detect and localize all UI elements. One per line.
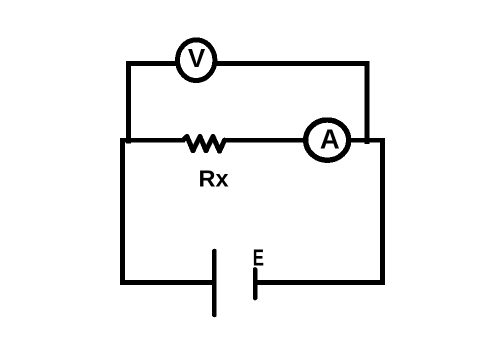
wire: voltmeter branch, left vertical from middle node up to top rail (126, 61, 131, 144)
ammeter A (circle with letter) (306, 120, 349, 160)
resistor Rx (zigzag body) (183, 137, 225, 152)
wire: middle rail right segment, from resistor through ammeter node to right corner (223, 138, 385, 143)
wire: left outer vertical, middle node down to bottom rail (120, 138, 125, 285)
svg-text:V: V (188, 43, 206, 73)
battery E: short (negative) plate (253, 270, 258, 299)
wire: top rail horizontal (passes behind voltmeter) (126, 61, 370, 66)
battery E: long (positive) plate (212, 251, 217, 315)
wire: voltmeter branch, right vertical from top rail down to middle node (364, 61, 369, 144)
svg-text:A: A (320, 123, 340, 154)
wire: bottom rail right segment, from battery negative plate (255, 280, 385, 285)
wire: bottom rail left segment, to battery positive plate (120, 280, 214, 285)
voltmeter V (circle with letter) (178, 40, 215, 81)
svg-text:E: E (253, 245, 264, 271)
wire: right outer vertical, middle node down to bottom rail (380, 138, 385, 285)
svg-text:Rx: Rx (199, 166, 229, 192)
wire: middle rail left segment, from left corner to resistor (120, 138, 185, 143)
